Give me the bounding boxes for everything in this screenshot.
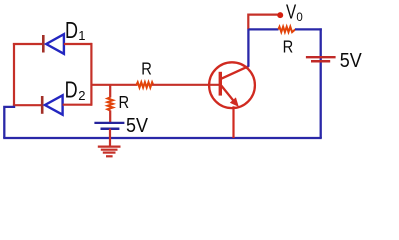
svg-text:R: R bbox=[283, 36, 294, 56]
svg-text:D: D bbox=[65, 77, 78, 103]
wire base branch right bbox=[152, 84, 220, 86]
wire D1 branch left bbox=[13, 43, 43, 45]
node V0 terminal dot bbox=[277, 12, 283, 18]
label V0 bbox=[286, 2, 303, 24]
wire left vertical of diode loop bbox=[13, 43, 15, 106]
label D1 bbox=[65, 17, 86, 43]
wire D2 branch left bbox=[13, 104, 42, 106]
wire battery to ground bbox=[109, 129, 111, 147]
label 5V left bbox=[126, 115, 149, 137]
wire emitter to rail bbox=[232, 106, 234, 138]
svg-text:R: R bbox=[141, 59, 152, 79]
wire base branch left bbox=[91, 84, 137, 86]
label R pull-down resistor bbox=[119, 92, 130, 112]
label R base resistor bbox=[141, 59, 152, 79]
label 5V right bbox=[340, 50, 363, 72]
svg-text:V: V bbox=[286, 2, 297, 24]
wire pull-down branch top bbox=[109, 85, 111, 98]
resistor R base (horizontal) bbox=[136, 82, 153, 87]
diode D1 bbox=[43, 34, 64, 54]
svg-text:5V: 5V bbox=[126, 115, 149, 137]
transistor Q1 bbox=[209, 62, 255, 108]
resistor R pull-down (vertical) bbox=[108, 97, 113, 110]
wire right vertical of diode loop bbox=[90, 43, 92, 106]
svg-text:1: 1 bbox=[78, 28, 85, 43]
diode D2 bbox=[42, 95, 62, 114]
wire pull-down branch to battery bbox=[109, 110, 111, 122]
wire collector blue vertical bbox=[247, 28, 249, 66]
wire right vertical supply bbox=[320, 28, 322, 138]
wire D1 branch right bbox=[64, 43, 92, 45]
svg-text:D: D bbox=[65, 17, 78, 43]
svg-text:5V: 5V bbox=[340, 50, 363, 72]
resistor R collector (horizontal) bbox=[278, 27, 295, 32]
wire top blue left of resistor bbox=[248, 28, 278, 30]
wire bottom ground rail bbox=[3, 137, 322, 139]
wire top blue right of resistor bbox=[295, 28, 322, 30]
wire V0 tap bbox=[248, 15, 277, 29]
wire D2 branch right bbox=[63, 104, 92, 106]
svg-text:2: 2 bbox=[78, 88, 85, 103]
ground bbox=[98, 147, 121, 157]
label D2 bbox=[65, 77, 86, 104]
wire blue stub from loop to ground rail bbox=[4, 107, 15, 138]
battery 5V left bbox=[94, 123, 124, 129]
label R collector resistor bbox=[283, 36, 294, 56]
svg-text:R: R bbox=[119, 92, 130, 112]
svg-text:0: 0 bbox=[296, 12, 302, 24]
battery 5V right bbox=[306, 57, 336, 61]
